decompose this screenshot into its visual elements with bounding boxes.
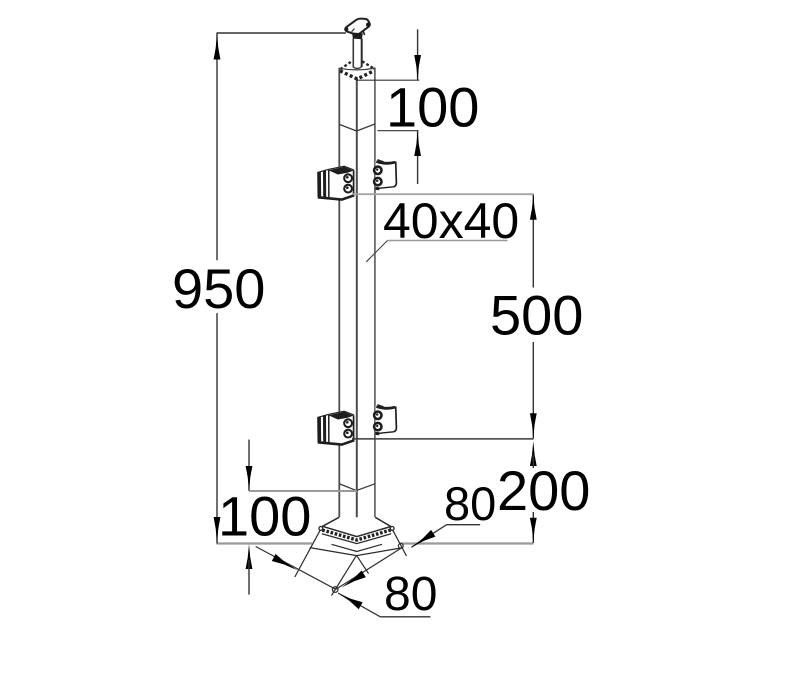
left clamp top outline xyxy=(317,166,354,172)
80 top leader arrow xyxy=(411,530,435,547)
dimension 500: bottom extension line xyxy=(352,438,534,440)
dimension 200: up arrow xyxy=(530,441,537,466)
80 bottom leader arrow xyxy=(338,593,363,609)
base skirt right flare + corner extension xyxy=(393,530,407,556)
dimension 500: top extension line xyxy=(353,193,534,195)
base corner loop xyxy=(332,587,338,593)
dimension 100 bottom: down arrow xyxy=(246,466,253,491)
post joint chevron top xyxy=(339,124,375,131)
svg-text:100: 100 xyxy=(218,485,311,548)
base rim hatched band xyxy=(322,530,390,540)
ground line xyxy=(217,542,534,544)
dimension 100 top: down arrow xyxy=(414,55,421,80)
cap inner tick xyxy=(352,29,355,32)
base right corner loop xyxy=(398,543,403,548)
base rim band bottom line xyxy=(322,534,391,544)
dimension 950 vertical line upper segment xyxy=(216,33,218,260)
left clamp top band xyxy=(329,167,354,175)
post body: right edge xyxy=(374,68,376,518)
svg-text:80: 80 xyxy=(444,477,496,530)
right clamp screw 1 xyxy=(374,167,381,174)
base dim line D1 (80 left edge) xyxy=(256,547,336,590)
base rim corner curl left xyxy=(319,527,323,531)
dimension 200: vertical line lower segment xyxy=(532,512,534,543)
saddle neck side mark xyxy=(363,31,365,36)
svg-text:950: 950 xyxy=(172,257,265,320)
svg-text:200: 200 xyxy=(497,459,590,522)
left clamp screw 1 xyxy=(344,174,352,182)
right clamp bottom foot xyxy=(375,187,379,191)
post top diamond front edges (hatched band) xyxy=(340,71,374,79)
base dim arrow on D2 xyxy=(342,571,366,588)
base cover rim top outline xyxy=(323,517,391,536)
base rim corner curl right xyxy=(390,527,394,531)
post top diamond back edges (hatched) xyxy=(340,61,374,69)
80 bottom underline xyxy=(380,616,430,618)
dimension 950 vertical line lower segment xyxy=(216,313,218,543)
post body: left edge xyxy=(338,68,340,518)
svg-text:100: 100 xyxy=(386,76,479,139)
dimension 100 top: vertical line below xyxy=(417,131,419,184)
base extension line from front corner right xyxy=(357,555,369,573)
stem cylinder xyxy=(352,38,354,67)
right clamp bottom edge xyxy=(379,187,394,189)
svg-text:80: 80 xyxy=(384,568,437,621)
left clamp bottom edge xyxy=(318,195,354,199)
40x40 leader line xyxy=(366,241,387,262)
dimension 950 bottom arrow xyxy=(214,517,221,543)
base skirt left flare + corner extension xyxy=(295,530,320,577)
dimension 100 bottom: vertical tail above xyxy=(248,440,250,491)
dimension 950 horizontal top line xyxy=(217,32,346,34)
glass clamp pair lower xyxy=(317,404,397,445)
dimension 100 bottom: up arrow below ground xyxy=(246,544,253,569)
dimension 100 top: vertical line above xyxy=(417,29,419,80)
dimension 100 top: extension line at joint xyxy=(378,130,419,132)
dimension 500: vertical line upper segment xyxy=(532,195,534,288)
post joint chevron bottom xyxy=(340,484,376,491)
saddle neck dark block xyxy=(352,33,363,40)
dimension 100 top: extension line at post top xyxy=(358,79,420,81)
dimension 100 bottom: extension line xyxy=(249,490,357,492)
left clamp screw 2 xyxy=(344,185,352,193)
80 top underline xyxy=(447,524,481,526)
dimension 500: up arrow xyxy=(530,195,537,220)
right clamp right edge xyxy=(394,162,397,187)
post body: middle (front) edge xyxy=(356,78,358,555)
base skirt bottom edges xyxy=(310,548,403,556)
left clamp right edge xyxy=(353,170,355,195)
dimension 200: vertical tail upper xyxy=(532,455,534,468)
dimension 950 top arrow xyxy=(214,34,221,60)
handrail saddle cap xyxy=(345,19,369,35)
dimension 500: down arrow xyxy=(530,413,537,438)
right clamp screw 2 xyxy=(374,178,381,185)
base extension line R xyxy=(332,555,357,595)
right clamp top band xyxy=(376,161,395,163)
40x40 underline xyxy=(388,240,508,242)
right clamp body xyxy=(376,159,397,189)
dimension 100 top: up arrow xyxy=(414,131,421,156)
stem bottom arc xyxy=(353,67,362,69)
post top face front rim curve xyxy=(339,68,375,70)
svg-text:500: 500 xyxy=(490,284,583,347)
cap corner screw right xyxy=(366,23,370,27)
base dim line D2 (80 right edge) xyxy=(336,547,404,590)
left clamp body xyxy=(317,166,354,200)
base dim arrow on D1 xyxy=(272,554,298,570)
base cover silhouette xyxy=(310,517,403,555)
glass clamp pair upper xyxy=(317,159,397,200)
cap corner screw left xyxy=(344,27,348,31)
dimension 500: vertical line lower segment xyxy=(532,342,534,439)
dimension 100 bottom: vertical tail below xyxy=(248,560,250,595)
left clamp left bars xyxy=(317,172,321,198)
80 top leader xyxy=(411,525,446,548)
80 bottom leader xyxy=(338,593,380,617)
base step inner line xyxy=(332,544,383,551)
dimension 200: down arrow xyxy=(530,518,537,543)
